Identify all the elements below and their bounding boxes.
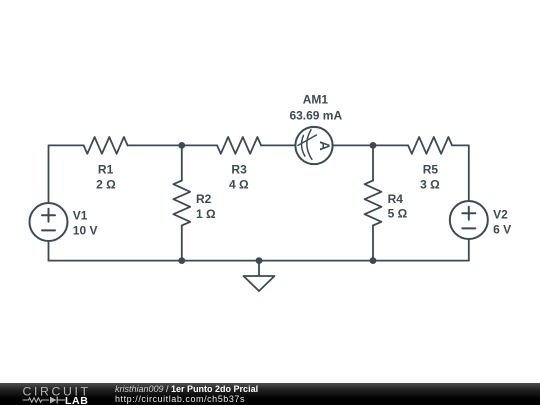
junction dot ground xyxy=(256,257,263,264)
svg-text:R2: R2 xyxy=(196,192,212,206)
footer bar xyxy=(0,383,540,405)
svg-text:R5: R5 xyxy=(423,163,439,177)
label V2 value 6V xyxy=(493,208,511,237)
label R4 value 5Ω xyxy=(388,192,408,221)
wire ammeter AM1 to node B xyxy=(333,144,373,146)
label R5 value 3Ω xyxy=(420,163,440,192)
wire R4 top lead xyxy=(372,145,374,180)
ground xyxy=(244,261,275,291)
node A junction dot xyxy=(178,142,185,149)
ammeter AM1 xyxy=(295,127,332,164)
resistor R2 xyxy=(173,181,190,226)
label R1 value 2Ω xyxy=(96,163,116,192)
svg-text:63.69 mA: 63.69 mA xyxy=(289,108,342,122)
wire bottom rail xyxy=(49,260,469,262)
svg-text:A: A xyxy=(317,141,332,151)
wire V1 bottom lead xyxy=(48,241,50,261)
wire node A to R3 xyxy=(182,144,217,146)
svg-text:4 Ω: 4 Ω xyxy=(229,178,249,192)
wire V2 bottom lead xyxy=(468,239,470,261)
wire top-left: V1 top lead to R1 xyxy=(49,145,84,203)
svg-text:LAB: LAB xyxy=(65,395,88,405)
junction dot R2 bottom xyxy=(178,257,185,264)
svg-text:V1: V1 xyxy=(73,209,88,223)
svg-text:6 V: 6 V xyxy=(493,222,511,236)
label AM1 value 63.69 mA xyxy=(289,93,342,123)
svg-text:V2: V2 xyxy=(493,208,508,222)
voltage source V1 xyxy=(30,203,68,241)
svg-text:3 Ω: 3 Ω xyxy=(420,177,440,191)
label V1 value 10V xyxy=(73,209,98,238)
svg-text:5 Ω: 5 Ω xyxy=(388,207,408,221)
wire R4 bottom lead xyxy=(372,226,374,261)
voltage source V2 xyxy=(450,201,488,239)
resistor R3 xyxy=(217,137,261,154)
wire node B to R5 xyxy=(373,144,408,146)
wire R3 to ammeter AM1 xyxy=(261,144,295,146)
wire R1 to node A xyxy=(128,144,182,146)
label R3 value 4Ω xyxy=(229,163,249,192)
resistor R5 xyxy=(408,137,452,154)
CircuitLab logo xyxy=(23,384,91,405)
svg-text:2 Ω: 2 Ω xyxy=(96,178,116,192)
svg-text:10 V: 10 V xyxy=(73,223,98,237)
wire R5 to V2 top lead xyxy=(452,145,469,201)
svg-text:1 Ω: 1 Ω xyxy=(196,207,216,221)
svg-text:R4: R4 xyxy=(388,192,404,206)
node B junction dot xyxy=(370,142,377,149)
resistor R1 xyxy=(84,137,128,154)
svg-text:R3: R3 xyxy=(231,163,247,177)
junction dot R4 bottom xyxy=(370,257,377,264)
resistor R4 xyxy=(365,181,382,226)
wire R2 top lead xyxy=(181,145,183,180)
svg-text:R1: R1 xyxy=(98,163,114,177)
wire R2 bottom lead xyxy=(181,226,183,261)
label R2 value 1Ω xyxy=(196,192,216,221)
footer caption xyxy=(115,385,258,404)
svg-text:AM1: AM1 xyxy=(303,93,329,107)
